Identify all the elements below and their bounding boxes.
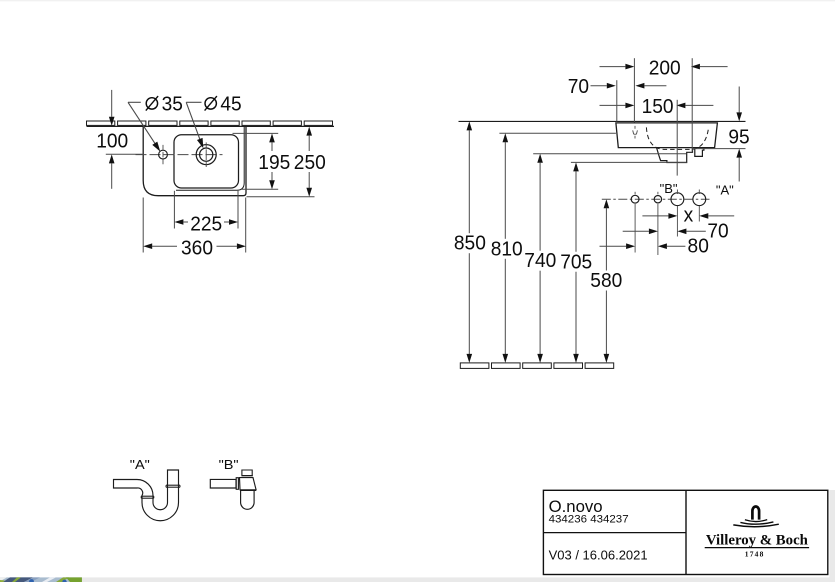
svg-text:Villeroy & Boch: Villeroy & Boch [706, 533, 808, 549]
svg-text:434236 434237: 434236 434237 [549, 513, 629, 525]
svg-text:810: 810 [491, 237, 523, 260]
svg-text:70: 70 [568, 75, 589, 98]
mounting hole 4 [693, 193, 706, 206]
svg-text:45: 45 [220, 92, 241, 115]
svg-text:360: 360 [181, 236, 213, 259]
top view: basin ledge line [176, 127, 244, 191]
svg-text:100: 100 [96, 130, 128, 153]
dimension 250 [247, 196, 315, 198]
svg-text:195: 195 [258, 151, 290, 174]
hole D45 tap hole [196, 145, 216, 165]
svg-text:V03 / 16.06.2021: V03 / 16.06.2021 [549, 548, 648, 563]
mounting hole 1 [631, 195, 639, 203]
svg-text:80: 80 [688, 234, 709, 257]
svg-text:"B": "B" [219, 457, 239, 472]
dimension 810 [499, 132, 616, 134]
trap A siphon [114, 470, 179, 521]
top view: bowl outline [174, 135, 239, 188]
logo underline [705, 547, 809, 549]
elevation: hidden tap hole [633, 126, 638, 139]
dimension 740 [533, 153, 686, 155]
svg-text:70: 70 [707, 220, 728, 243]
svg-text:"B": "B" [660, 181, 678, 196]
elevation: drain housing [657, 148, 693, 163]
dimension 360 [142, 198, 144, 253]
dimension 850 [468, 120, 470, 122]
mounting hole 3 [671, 193, 684, 206]
leader D45 [186, 101, 201, 103]
label D45 [205, 96, 217, 111]
floor tiles [460, 363, 613, 369]
dimension 200 [600, 66, 626, 68]
Villeroy & Boch logo icon [733, 507, 779, 527]
svg-text:200: 200 [649, 57, 681, 80]
elevation: hidden bowl line [646, 127, 708, 149]
mounting holes centre line [602, 198, 710, 200]
trap B bottle trap [210, 479, 236, 488]
svg-text:850: 850 [454, 232, 486, 255]
mounting hole 2 [654, 196, 661, 203]
top view: centre line through holes [136, 154, 223, 156]
leader D35 [128, 101, 141, 103]
dimension 70 holes [623, 230, 649, 232]
dimension 95 [738, 87, 740, 113]
photo fragment bottom left [0, 577, 82, 582]
elevation: basin profile [616, 123, 718, 148]
label D35 [146, 96, 158, 111]
title block frame [543, 490, 827, 574]
bottom gray strip [82, 577, 835, 582]
top view: wall line [87, 125, 335, 127]
right gray margin [829, 490, 835, 582]
svg-text:705: 705 [560, 250, 592, 273]
hole D35 [159, 150, 168, 159]
svg-text:250: 250 [294, 151, 326, 174]
dimension 580 [604, 199, 610, 208]
svg-text:"A": "A" [130, 457, 150, 472]
svg-text:x: x [684, 204, 694, 227]
title block vertical divider [685, 490, 687, 574]
svg-text:1748: 1748 [745, 550, 765, 559]
svg-text:740: 740 [524, 249, 556, 272]
top view: wall tiles [87, 121, 333, 125]
dimension 195 [233, 132, 279, 134]
extension lines elevation top [616, 80, 618, 121]
svg-text:150: 150 [642, 95, 674, 118]
top view: basin outline [143, 127, 246, 196]
elevation: wall line [459, 120, 746, 122]
dimension 225 [173, 191, 175, 229]
dimension 705 [571, 161, 687, 163]
title block horizontal divider [543, 532, 686, 534]
elevation: overflow bracket [695, 148, 704, 157]
svg-text:225: 225 [190, 212, 222, 235]
dimension 80 [600, 245, 627, 247]
svg-text:580: 580 [590, 269, 622, 292]
svg-text:95: 95 [728, 126, 749, 149]
dimension 150 [600, 104, 626, 106]
dimension x [642, 215, 668, 217]
dimension 100 [111, 90, 113, 117]
svg-text:35: 35 [162, 92, 183, 115]
svg-text:"A": "A" [716, 182, 734, 197]
